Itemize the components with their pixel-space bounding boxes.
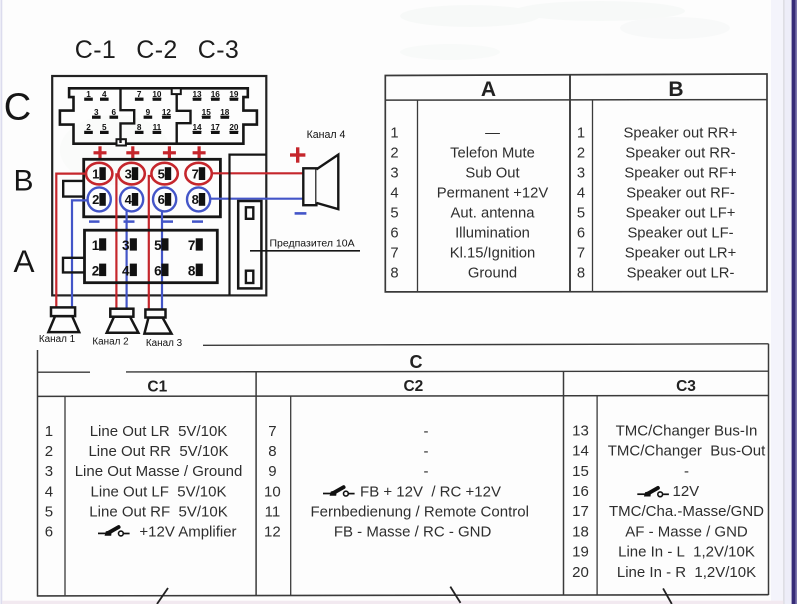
fuse body [238, 201, 261, 288]
svg-text:Line Out RF 5V/10K: Line Out RF 5V/10K [89, 503, 227, 520]
pin B2 [88, 187, 111, 211]
pin B5 [151, 163, 177, 185]
svg-text:6: 6 [45, 524, 53, 541]
svg-text:-: - [424, 463, 429, 480]
svg-text:10: 10 [152, 90, 162, 99]
table C1 header [147, 379, 167, 396]
svg-text:TMC/Cha.-Masse/GND: TMC/Cha.-Masse/GND [609, 503, 764, 520]
svg-text:10: 10 [264, 483, 281, 500]
svg-text:Aut. antenna: Aut. antenna [451, 205, 536, 221]
divider C2|C3 with jog [177, 90, 191, 143]
pin B4 [120, 187, 143, 211]
svg-text:9: 9 [146, 108, 151, 117]
svg-text:11: 11 [153, 123, 162, 132]
svg-text:3: 3 [125, 166, 132, 181]
svg-text:C: C [410, 352, 423, 372]
svg-text:7: 7 [192, 166, 199, 181]
svg-text:12V: 12V [673, 483, 700, 500]
pin B1 [86, 163, 112, 185]
svg-text:Speaker out RR-: Speaker out RR- [625, 145, 735, 161]
table C header [410, 352, 423, 372]
svg-text:4: 4 [577, 185, 585, 201]
svg-text:2: 2 [577, 145, 585, 161]
svg-text:Kl.15/Ignition: Kl.15/Ignition [450, 245, 536, 261]
svg-text:-: - [424, 443, 429, 460]
svg-text:Канал 2: Канал 2 [92, 337, 128, 348]
svg-text:1: 1 [577, 125, 585, 141]
connector A left tab [63, 258, 85, 273]
speaker 1 (Канал 1) [48, 307, 79, 332]
fuse compartment [230, 155, 266, 295]
svg-text:C-2: C-2 [136, 36, 177, 64]
svg-text:4: 4 [45, 483, 53, 500]
wire red B3 down [116, 174, 119, 309]
wire red B7 to speaker 4 [211, 172, 303, 174]
svg-text:9: 9 [268, 463, 276, 480]
speaker 2 label [92, 337, 128, 348]
svg-text:3: 3 [45, 463, 53, 480]
svg-text:4: 4 [122, 264, 130, 279]
svg-text:Ground: Ground [468, 265, 517, 281]
table C2 pin numbers [264, 423, 281, 541]
svg-text:Line Out LF 5V/10K: Line Out LF 5V/10K [91, 483, 227, 500]
svg-text:A: A [13, 243, 34, 279]
svg-text:8: 8 [268, 443, 276, 460]
svg-text:Illumination: Illumination [455, 225, 530, 241]
svg-text:6: 6 [158, 192, 165, 207]
svg-text:Speaker out LR+: Speaker out LR+ [625, 245, 736, 261]
svg-text:B: B [668, 78, 683, 101]
svg-text:7: 7 [137, 90, 142, 99]
radio unit outer box [52, 76, 266, 295]
svg-text:Line In - L 1,2V/10K: Line In - L 1,2V/10K [618, 544, 755, 561]
connector section label C-1 [75, 36, 116, 64]
svg-text:TMC/Changer Bus-Out: TMC/Changer Bus-Out [608, 443, 766, 460]
svg-text:2: 2 [92, 264, 100, 279]
svg-text:5: 5 [390, 205, 398, 221]
speaker 3 (Канал 3) [144, 310, 171, 334]
connector C pins row3: 2 5 | 8 11 | 14 17 20 [86, 123, 239, 132]
svg-text:6: 6 [577, 225, 585, 241]
svg-text:13: 13 [572, 422, 589, 439]
wire blue B2 left [72, 200, 89, 307]
svg-text:15: 15 [572, 463, 589, 480]
svg-text:Line Out RR 5V/10K: Line Out RR 5V/10K [88, 443, 228, 460]
connector section label C-2 [136, 36, 177, 64]
svg-text:3: 3 [577, 165, 585, 181]
svg-text:18: 18 [220, 108, 230, 117]
svg-text:11: 11 [265, 503, 281, 520]
wire blue B6 down [161, 211, 163, 310]
svg-text:FB + 12V / RC +12V: FB + 12V / RC +12V [360, 483, 501, 500]
svg-text:6: 6 [390, 225, 398, 241]
svg-text:1: 1 [390, 125, 398, 141]
connector C pins row1: 1 4 | 7 10 | 13 16 19 [86, 90, 239, 99]
svg-text:2: 2 [86, 123, 91, 132]
svg-text:1: 1 [86, 90, 91, 99]
svg-text:16: 16 [572, 483, 589, 500]
pin B8 [187, 187, 210, 211]
table B header [668, 78, 683, 101]
svg-text:Fernbedienung / Remote Control: Fernbedienung / Remote Control [310, 503, 528, 520]
svg-text:4: 4 [125, 192, 133, 207]
connector C top keying notch [172, 88, 181, 94]
svg-text:-: - [424, 423, 429, 440]
svg-text:1: 1 [92, 166, 99, 181]
svg-text:5: 5 [154, 238, 162, 253]
leader tick middle [450, 587, 460, 603]
connector C bottom keying notch [117, 139, 126, 145]
leader tick left [157, 588, 168, 604]
svg-text:6: 6 [112, 108, 117, 117]
svg-text:12: 12 [162, 108, 172, 117]
wire blue B8 to speaker 4 [210, 198, 304, 200]
switch icon C2 pin 10 [323, 487, 355, 496]
table B pin numbers [577, 125, 585, 281]
svg-text:8: 8 [192, 192, 199, 207]
table C3 pin numbers [572, 422, 589, 580]
svg-text:TMC/Changer Bus-In: TMC/Changer Bus-In [616, 422, 758, 439]
connector A pins row2: 2 4 6 8 [92, 264, 196, 279]
svg-text:Speaker out RF+: Speaker out RF+ [624, 165, 736, 181]
table A/B frame [385, 74, 767, 292]
svg-text:7: 7 [188, 238, 196, 253]
svg-text:6: 6 [154, 264, 162, 279]
connector C housing outline [60, 88, 257, 143]
plus signs above connector B [94, 146, 206, 159]
svg-text:Канал 3: Канал 3 [146, 338, 183, 349]
svg-text:8: 8 [188, 264, 196, 279]
speaker 2 (Канал 2) [107, 309, 139, 333]
svg-text:2: 2 [92, 192, 99, 207]
svg-text:C2: C2 [403, 378, 423, 395]
table C2 pin functions [310, 423, 528, 541]
table C2 header [403, 378, 423, 395]
svg-text:17: 17 [572, 503, 589, 520]
svg-text:3: 3 [94, 108, 99, 117]
svg-text:C1: C1 [147, 379, 167, 396]
pin B6 [153, 187, 176, 211]
svg-text:Line Out LR 5V/10K: Line Out LR 5V/10K [90, 423, 228, 440]
connector A pins row1: 1 3 5 7 [92, 238, 196, 253]
svg-text:1: 1 [92, 238, 100, 253]
svg-text:Line In - R 1,2V/10K: Line In - R 1,2V/10K [617, 564, 756, 581]
svg-text:2: 2 [390, 145, 398, 161]
svg-text:Speaker out RF-: Speaker out RF- [626, 185, 735, 201]
svg-text:5: 5 [577, 205, 585, 221]
svg-text:19: 19 [229, 90, 239, 99]
connector B housing [84, 159, 221, 217]
pin B3 [118, 163, 144, 185]
svg-text:8: 8 [137, 123, 142, 132]
table C1 pin numbers [45, 423, 53, 541]
svg-text:B: B [13, 165, 33, 198]
fuse label text [270, 237, 355, 249]
speaker 1 label [39, 334, 76, 345]
svg-text:18: 18 [572, 523, 589, 540]
svg-text:+12V Amplifier: +12V Amplifier [139, 524, 236, 541]
svg-text:4: 4 [390, 185, 398, 201]
svg-text:13: 13 [192, 90, 202, 99]
svg-text:15: 15 [202, 108, 212, 117]
svg-text:Speaker out LF-: Speaker out LF- [627, 225, 733, 241]
table A header [481, 78, 496, 101]
speaker 3 label [146, 338, 183, 349]
svg-text:Канал 1: Канал 1 [39, 334, 76, 345]
svg-text:17: 17 [211, 123, 221, 132]
minus sign speaker 4 [295, 212, 307, 215]
speaker 4 (Канал 4) [303, 155, 338, 210]
svg-text:8: 8 [577, 265, 585, 281]
svg-text:Permanent +12V: Permanent +12V [437, 185, 549, 201]
svg-text:Sub Out: Sub Out [465, 165, 519, 181]
wire red B1 left [56, 174, 87, 308]
connector section label C-3 [198, 36, 239, 64]
svg-text:C-1: C-1 [75, 36, 116, 64]
svg-text:—: — [485, 125, 500, 141]
connector A housing [85, 230, 218, 283]
svg-text:8: 8 [390, 265, 398, 281]
svg-text:20: 20 [229, 123, 239, 132]
row label C [4, 87, 31, 129]
svg-text:14: 14 [572, 443, 589, 460]
svg-text:4: 4 [102, 90, 107, 99]
divider C1|C2 with jog [121, 89, 135, 143]
svg-text:5: 5 [45, 503, 53, 520]
svg-text:12: 12 [264, 524, 281, 541]
table C3 header [676, 378, 696, 395]
svg-text:2: 2 [45, 443, 53, 460]
table C1 pin functions [75, 423, 243, 541]
svg-text:Speaker out LR-: Speaker out LR- [627, 265, 735, 281]
svg-text:Speaker out RR+: Speaker out RR+ [624, 125, 738, 141]
svg-text:Speaker out LF+: Speaker out LF+ [626, 205, 736, 221]
svg-text:Telefon Mute: Telefon Mute [450, 145, 535, 161]
svg-text:14: 14 [192, 123, 202, 132]
leader tick right [663, 588, 672, 604]
svg-text:19: 19 [572, 544, 589, 561]
table C frame [37, 344, 769, 596]
svg-text:Line Out Masse / Ground: Line Out Masse / Ground [75, 463, 243, 480]
switch icon C3 pin 16 [637, 488, 669, 497]
speaker 4 label [307, 129, 346, 141]
svg-text:1: 1 [45, 423, 53, 440]
switch icon C1 pin 6 [98, 527, 130, 536]
plus sign speaker 4 [290, 147, 305, 162]
svg-text:5: 5 [158, 166, 165, 181]
row label B [13, 165, 33, 198]
wire blue B4 down [125, 211, 127, 309]
table C3 pin functions [608, 422, 766, 580]
svg-text:Предпазител 10А: Предпазител 10А [270, 237, 355, 249]
svg-text:7: 7 [390, 245, 398, 261]
svg-text:-: - [684, 463, 689, 480]
wire red B5 down [149, 176, 153, 310]
svg-text:A: A [481, 78, 496, 101]
svg-text:7: 7 [268, 423, 276, 440]
table A pin functions [437, 125, 549, 281]
svg-text:16: 16 [211, 90, 221, 99]
svg-text:Канал 4: Канал 4 [307, 129, 346, 141]
svg-text:AF - Masse / GND: AF - Masse / GND [625, 523, 748, 540]
svg-text:FB - Masse / RC - GND: FB - Masse / RC - GND [334, 524, 492, 541]
svg-text:3: 3 [390, 165, 398, 181]
table A pin numbers [390, 125, 398, 281]
table B pin functions [624, 125, 738, 281]
svg-text:20: 20 [572, 564, 589, 581]
svg-text:7: 7 [577, 245, 585, 261]
connector B left tab [63, 181, 83, 197]
row label A [13, 243, 34, 279]
minus signs below connector B [89, 220, 203, 223]
fuse label line [250, 250, 360, 252]
svg-text:C3: C3 [676, 378, 696, 395]
pin B7 [185, 163, 211, 185]
svg-text:C-3: C-3 [198, 36, 239, 64]
svg-text:C: C [4, 87, 31, 129]
connector C pins row2: 3 6 | 9 12 | 15 18 [94, 108, 230, 117]
svg-text:5: 5 [102, 123, 107, 132]
svg-text:3: 3 [122, 238, 130, 253]
